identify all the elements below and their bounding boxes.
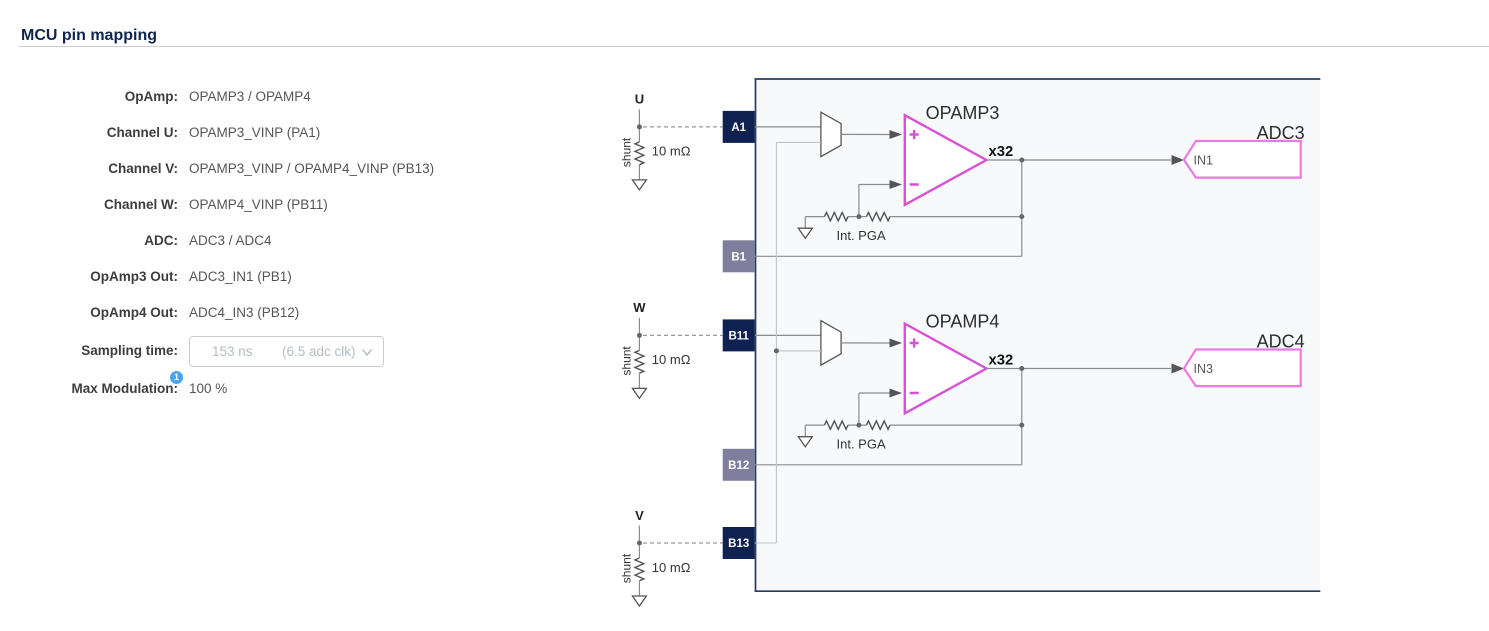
svg-text:Int. PGA: Int. PGA xyxy=(837,436,886,451)
svg-text:A1: A1 xyxy=(731,122,746,134)
svg-text:shunt: shunt xyxy=(619,346,633,376)
svg-text:IN3: IN3 xyxy=(1194,362,1214,376)
svg-text:V: V xyxy=(635,508,644,523)
svg-text:10 mΩ: 10 mΩ xyxy=(652,144,691,159)
svg-text:shunt: shunt xyxy=(619,553,633,583)
svg-text:W: W xyxy=(633,300,646,315)
svg-text:IN1: IN1 xyxy=(1194,153,1214,167)
svg-text:10 mΩ: 10 mΩ xyxy=(652,560,691,575)
svg-text:10 mΩ: 10 mΩ xyxy=(652,352,691,367)
svg-text:B12: B12 xyxy=(728,460,749,472)
svg-text:x32: x32 xyxy=(989,144,1014,160)
svg-text:OPAMP4: OPAMP4 xyxy=(926,312,1000,332)
svg-text:shunt: shunt xyxy=(619,137,633,167)
svg-text:U: U xyxy=(635,92,644,107)
svg-text:ADC4: ADC4 xyxy=(1257,332,1305,352)
svg-text:Int. PGA: Int. PGA xyxy=(837,228,886,243)
svg-text:ADC3: ADC3 xyxy=(1257,123,1305,143)
svg-text:B1: B1 xyxy=(731,252,746,264)
svg-text:OPAMP3: OPAMP3 xyxy=(926,103,1000,123)
svg-text:x32: x32 xyxy=(989,353,1014,369)
svg-text:B11: B11 xyxy=(728,331,749,343)
svg-text:B13: B13 xyxy=(728,538,749,550)
